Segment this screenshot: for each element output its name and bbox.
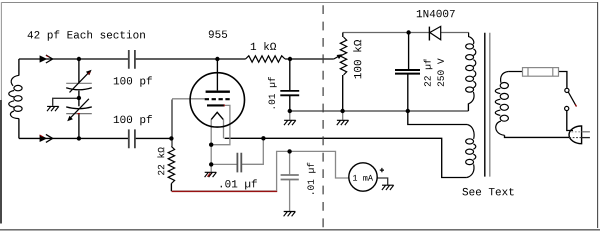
capacitor 22 µf electrolytic [395, 70, 420, 74]
tube V1 cathode [207, 104, 225, 106]
wire: cathode wrap-around (gray) [213, 105, 230, 144]
wire: plate feed after 1k to pot wiper [285, 58, 334, 60]
coupling arrow (top) [40, 55, 53, 63]
junction (1k / bypass cap) [288, 57, 292, 61]
junction (B+ / 22uf top) [406, 30, 410, 34]
wire: grid leak red return wire [172, 189, 276, 191]
wire: grid leak return riser (gray) [277, 151, 349, 191]
junction (tuning cap rotor) [77, 96, 81, 100]
tube V1 plate [206, 90, 230, 92]
plug P1 (AC mains) [569, 126, 590, 144]
label "250 V" (rotated) [437, 58, 444, 86]
wire: switch to plug [567, 111, 573, 131]
wire: filament right leg (gray) [223, 119, 225, 138]
wire: filament bypass cap left lead (gray) [211, 163, 237, 165]
junction (filament ground / bypass cap) [209, 162, 213, 166]
diode D1 1N4007 [429, 26, 440, 40]
wire: primary bottom to plug [505, 135, 571, 137]
capacitor 100 pf (top coupling) [129, 50, 135, 69]
label "955" (tube type) [209, 30, 227, 38]
ground (detector cap) [284, 212, 296, 217]
wire: split cap bottom lead [78, 114, 80, 139]
ground (potentiometer) [337, 120, 349, 125]
transformer T1 HV secondary winding [466, 33, 476, 104]
transformer T1 filament winding [466, 125, 476, 178]
chassis boundary (dashed divider) [322, 0, 324, 231]
label "100 pf" (bottom coupling cap) [114, 115, 152, 125]
wire: detector cap leads (gray) [289, 151, 291, 211]
variable capacitor C1b (42 pf section, bottom) [66, 99, 92, 121]
wire: split cap top lead [78, 59, 80, 83]
wire: grid lead horizontal (gray) [172, 98, 205, 100]
wire: filament winding top return [408, 111, 468, 125]
junction (ground bus / pot bottom) [340, 109, 344, 113]
wire: filament bypass cap right lead (gray) [241, 138, 263, 164]
label ".01 µf" (detector output cap, rotated) [307, 163, 316, 194]
tube V1 grid (dashed) [205, 98, 231, 100]
wire: tank bottom line [19, 137, 172, 139]
ground (tank rotor) [47, 106, 59, 111]
resistor 22 kΩ (grid leak) [168, 146, 174, 183]
wire: pot bottom lead [342, 75, 344, 111]
junction (plate lead) [215, 57, 219, 61]
junction (tank top / tuning cap) [77, 57, 81, 61]
wire: filament left leg down to ground (gray) [210, 119, 212, 172]
label ".01 µf" (filament bypass cap) [221, 179, 257, 189]
transformer T1 primary winding [495, 72, 508, 136]
wire: plate bypass cap leads [289, 59, 291, 111]
capacitor .01 µf (filament bypass, vertical plates) [237, 153, 241, 173]
label "42 pf Each section" [28, 30, 145, 40]
switch S1 [565, 88, 577, 110]
wire: coil bottom lead [18, 119, 20, 139]
junction (tank bottom / tuning cap) [77, 136, 81, 140]
wire: rotor ground stub [53, 98, 79, 106]
wire: meter positive to ground (gray) [377, 178, 387, 185]
wire: tank top line [19, 58, 246, 60]
potentiometer 100 kΩ [334, 37, 347, 75]
resistor 1 kΩ [246, 56, 286, 62]
wire: plate lead [216, 59, 218, 90]
label "See Text" [462, 188, 513, 196]
wire: pot ground stub [342, 111, 344, 120]
capacitor .01 µf (plate supply bypass) [280, 91, 299, 95]
label "1N4007" [417, 10, 455, 18]
wire: coil top lead [18, 59, 20, 76]
junction (ground bus / plate bypass) [288, 109, 292, 113]
junction (grid / 22k / tank) [169, 136, 173, 140]
label "1 kΩ" [251, 42, 276, 50]
wire: HV winding bottom lead [467, 104, 469, 112]
wire: pot top lead [342, 33, 344, 38]
wire: primary top lead to fuse and switch [508, 72, 567, 89]
tube V1 filament heater [211, 112, 223, 119]
label "22 µf" (rotated) [424, 59, 433, 86]
inductor L1 (antenna/tank coil) [9, 75, 22, 118]
wire: bypass cap ground stub [289, 111, 291, 120]
transformer T1 core [485, 33, 490, 177]
label ".01 µf" (plate bypass, rotated) [268, 77, 277, 108]
wire: grid lead vertical [171, 100, 173, 147]
wire: ground bus line [290, 110, 469, 112]
wire: split cap middle leads [78, 91, 80, 107]
junction (ground bus / 22uf bottom) [406, 109, 410, 113]
ground (filament/cathode) [205, 172, 217, 177]
wire: filament hot line to transformer [225, 138, 467, 177]
label "100 kΩ" (rotated) [353, 40, 361, 78]
capacitor 100 pf (bottom coupling) [129, 129, 135, 148]
label "22 kΩ" (rotated) [157, 147, 164, 175]
capacitor .01 µf (detector output) [281, 175, 299, 180]
junction (detector cap tap) [287, 149, 291, 153]
junction (cathode-filament tie) [209, 143, 213, 147]
label "100 pf" (top coupling cap) [114, 76, 152, 86]
wire: B+ top line to diode and transformer [343, 32, 469, 34]
ground (meter positive) [382, 185, 394, 190]
coupling arrow (bottom) [40, 134, 53, 142]
variable capacitor C1a (42 pf section, top) [66, 70, 92, 93]
wire: 22uf leads [407, 33, 410, 112]
meter M1 1 mA [349, 163, 384, 191]
wire: 22k bottom lead [170, 184, 172, 192]
tube V1 955 triode: envelope [190, 73, 244, 127]
ground (plate bypass cap) [284, 120, 296, 125]
fuse F1 [523, 68, 559, 77]
junction (filament hot / bypass) [261, 136, 265, 140]
